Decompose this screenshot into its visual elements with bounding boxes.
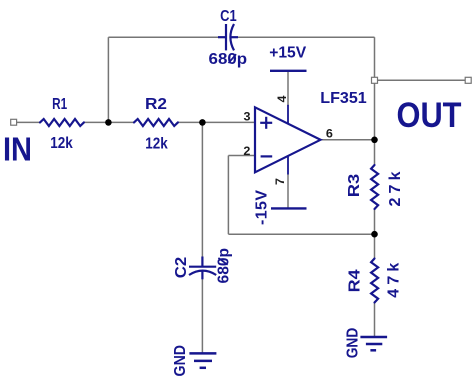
- pin 4 lead of op-amp: [287, 105, 289, 124]
- ground (left, under C2): [189, 353, 216, 367]
- node A junction: [105, 119, 112, 126]
- terminal IN: [11, 119, 17, 125]
- node B junction: [199, 119, 206, 126]
- wire node C to R4: [374, 234, 376, 258]
- slashed zero of 680p (C2): [218, 258, 227, 265]
- wire C2 to ground: [201, 279, 203, 353]
- svg-text:OUT: OUT: [397, 96, 462, 135]
- op-amp minus mark: [261, 155, 273, 157]
- svg-text:R1: R1: [52, 96, 67, 113]
- svg-text:680p: 680p: [215, 248, 232, 284]
- resistor R1: [40, 119, 84, 126]
- ground (right, under R4): [360, 337, 387, 350]
- power +15V bar: [270, 70, 307, 72]
- terminal OUT right edge: [465, 77, 471, 83]
- svg-text:47k: 47k: [386, 263, 403, 298]
- svg-text:GND: GND: [344, 328, 361, 359]
- wire output node to R3: [374, 140, 376, 165]
- svg-text:3: 3: [244, 110, 251, 124]
- svg-text:+15V: +15V: [269, 45, 306, 62]
- op-amp plus mark: [260, 117, 272, 129]
- svg-text:GND: GND: [172, 345, 189, 377]
- wire feedback down: [227, 156, 229, 235]
- svg-text:12k: 12k: [145, 135, 168, 152]
- wire R3 to node C: [374, 209, 376, 234]
- svg-text:12k: 12k: [50, 135, 73, 152]
- svg-text:4: 4: [275, 95, 289, 102]
- svg-text:27k: 27k: [387, 171, 404, 206]
- svg-text:7: 7: [273, 178, 287, 185]
- wire pin 7 to -15V: [287, 175, 289, 209]
- svg-text:6: 6: [326, 127, 333, 141]
- node C junction: [371, 231, 378, 238]
- terminal OUT tap: [372, 77, 378, 83]
- op-amp U1 triangle: [255, 107, 321, 172]
- wire top right corner down to OUT tap: [374, 37, 376, 78]
- wire R1 to node A: [84, 121, 109, 123]
- wire OUT tap to right edge: [377, 79, 467, 81]
- svg-text:C1: C1: [220, 8, 237, 25]
- wire node A up: [107, 37, 109, 122]
- svg-text:C2: C2: [173, 257, 190, 279]
- slashed zero of 680p (C1): [229, 54, 237, 63]
- wire node A to R2: [108, 121, 134, 123]
- wire pin 2 to feedback: [228, 155, 254, 157]
- svg-text:R3: R3: [346, 174, 363, 198]
- capacitor C1: [218, 24, 238, 50]
- pin 7 lead of op-amp: [287, 157, 289, 175]
- svg-text:LF351: LF351: [320, 90, 367, 107]
- wire C1 to top right corner: [236, 36, 375, 38]
- wire IN lead: [17, 121, 41, 123]
- node output junction: [371, 137, 378, 144]
- svg-text:IN: IN: [3, 131, 32, 168]
- wire node B down to C2: [201, 122, 203, 259]
- wire R4 to ground: [374, 303, 376, 338]
- resistor R4: [371, 259, 378, 303]
- capacitor C2: [189, 257, 216, 280]
- wire node B to pin 3: [202, 121, 254, 123]
- svg-text:680p: 680p: [209, 51, 248, 68]
- power -15V bar: [271, 207, 307, 209]
- svg-text:R4: R4: [347, 269, 364, 292]
- svg-text:2: 2: [243, 144, 250, 158]
- wire pin 4 to +15V: [287, 71, 289, 106]
- resistor R2: [134, 119, 178, 126]
- wire op-amp output: [321, 139, 375, 141]
- svg-text:-15V: -15V: [253, 190, 270, 225]
- resistor R3: [371, 165, 378, 209]
- wire OUT tap down to output node: [374, 83, 376, 140]
- wire feedback to node C: [228, 233, 374, 235]
- svg-text:R2: R2: [145, 96, 167, 113]
- wire R2 to node B: [178, 121, 202, 123]
- wire top left to C1: [108, 36, 220, 38]
